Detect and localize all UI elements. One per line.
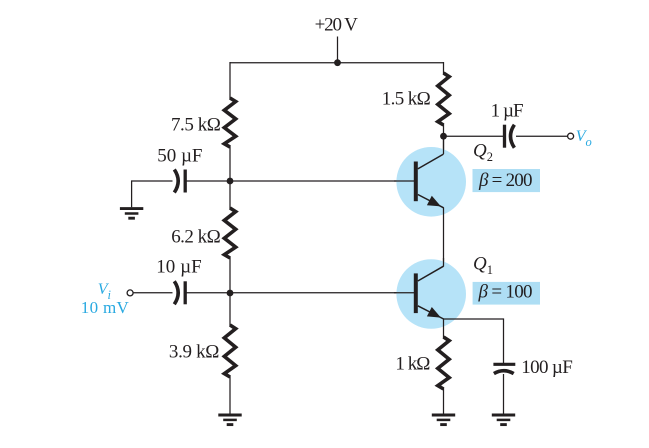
output terminal circle [568,133,574,139]
wire Q1 emitter down to R5 [443,319,445,338]
svg-text:10 µF: 10 µF [156,257,202,278]
junction dot at supply node [334,59,341,66]
capacitor C2 10 uF [174,281,178,304]
wire node A to R2 top [229,181,231,209]
svg-text:7.5 kΩ: 7.5 kΩ [171,114,221,135]
ground at C1 [120,207,143,210]
wire Q2 emitter to Q1 collector [443,208,445,267]
node C junction dot [440,133,447,140]
wire rail to R4 top [443,62,445,74]
wire R5 to ground [443,388,445,414]
svg-text:1 kΩ: 1 kΩ [395,353,430,374]
resistor R4 1.5 kOhm [438,73,449,125]
wire node B to Q1 base [230,292,415,294]
capacitor C3 1 uF [511,125,515,148]
input terminal circle [127,290,133,296]
top rail wire [230,62,444,64]
wire C4 to ground [503,374,505,414]
svg-text:6.2 kΩ: 6.2 kΩ [171,226,221,247]
wire rail to R1 top [229,62,231,99]
ground at R5 [432,414,455,417]
resistor R3 3.9 kOhm [224,325,235,377]
beta box of Q1 [473,282,540,305]
svg-text:50 µF: 50 µF [157,145,202,166]
wire C2 to node B [187,292,231,294]
wire C3 to output terminal [516,135,568,137]
capacitor C1 50 uF [174,170,178,193]
wire R1 to node A [229,146,231,181]
svg-text:β = 200: β = 200 [478,170,533,191]
wire R4 to node C [443,124,445,154]
beta box of Q2 [473,169,541,192]
ground at R3 [218,414,241,417]
node A junction dot [227,178,234,185]
ground at C4 [492,414,515,417]
wire Q1 emitter to C4 [444,319,504,363]
resistor R5 1 kOhm [438,337,449,389]
svg-text:+20 V: +20 V [315,14,359,35]
svg-text:10 mV: 10 mV [81,298,130,317]
wire Q2 collector to node C [443,136,445,154]
svg-text:3.9 kΩ: 3.9 kΩ [169,341,220,362]
capacitor C4 100 uF [493,363,515,366]
supply lead wire [337,37,339,64]
svg-text:100 µF: 100 µF [521,357,573,378]
wire node A to Q2 base [230,180,415,182]
transistor Q1 [394,258,466,329]
svg-text:1.5 kΩ: 1.5 kΩ [382,88,431,109]
wire node C to C3 [444,135,504,137]
wire R3 to ground [229,376,231,414]
wire C1 to node A [187,180,231,182]
svg-text:1 µF: 1 µF [491,101,524,122]
node B junction dot [227,290,234,297]
wire R2 to node B [229,257,231,293]
resistor R2 6.2 kOhm [224,208,235,258]
transistor Q2 [394,147,466,217]
resistor R1 7.5 kOhm [224,98,235,147]
svg-text:β = 100: β = 100 [478,282,533,303]
wire C1 to left ground [132,181,173,207]
wire node B to R3 top [229,293,231,326]
wire terminal to C2 [133,292,173,294]
